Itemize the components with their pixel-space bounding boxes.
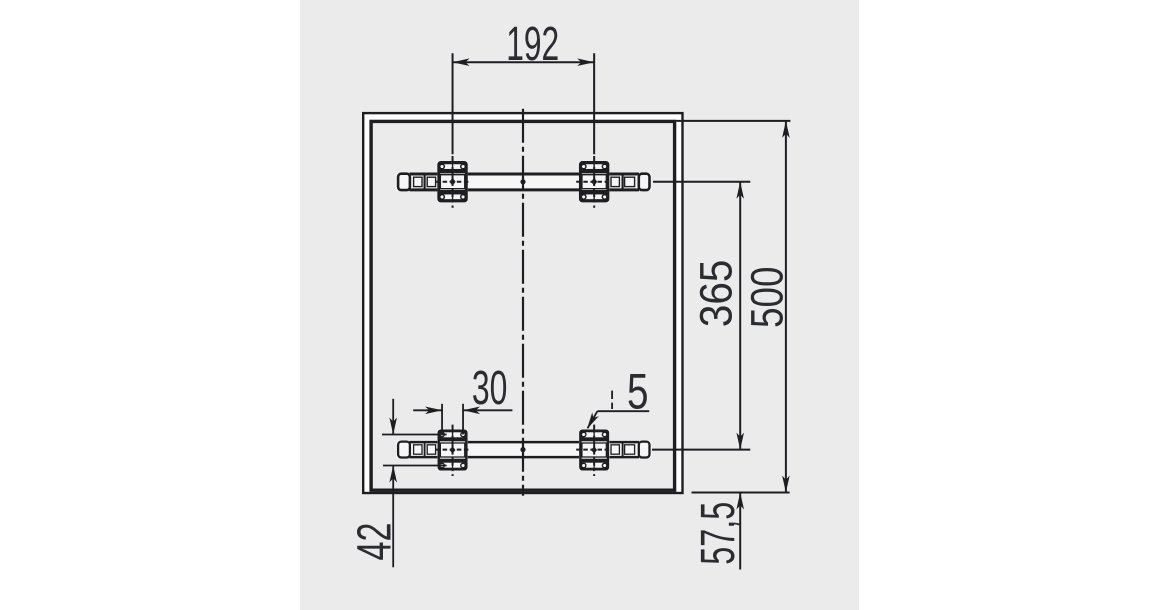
dimension 30 — [413, 404, 512, 435]
rail R2 halo — [396, 441, 652, 458]
svg-text:57,5: 57,5 — [691, 502, 745, 565]
rail R1 end cap left — [398, 174, 410, 190]
plate inner outline — [371, 121, 674, 490]
block B3 vertical centerline — [452, 425, 454, 476]
block B4 vertical centerline — [593, 425, 595, 476]
rail R2 body — [410, 441, 640, 458]
label 5 leader — [588, 391, 650, 429]
carriage block B3 — [437, 429, 467, 470]
rail R1 halo — [396, 173, 652, 191]
rail R2 end cap left — [398, 442, 410, 458]
svg-text:192: 192 — [506, 18, 559, 71]
svg-text:42: 42 — [349, 523, 402, 561]
svg-text:5: 5 — [627, 364, 649, 420]
dimension 365 — [739, 182, 741, 450]
svg-text:365: 365 — [691, 260, 742, 328]
rail R1 hole squares — [414, 177, 635, 186]
gray drawing panel — [300, 0, 859, 610]
rail R1 center dot — [520, 179, 525, 184]
rail R2 hole squares — [414, 445, 635, 454]
dimension 57,5 — [739, 493, 741, 570]
rail R2 center dot — [520, 447, 525, 452]
dimension 192 — [453, 53, 595, 154]
rail R1 end cap right — [639, 174, 650, 190]
rail R2 end cap right — [639, 442, 650, 458]
rail R1 body — [410, 173, 640, 191]
plate outer outline — [363, 113, 682, 493]
carriage block B1 — [437, 161, 467, 202]
dimension 500 — [785, 121, 787, 493]
rail R1 centerline dashes — [436, 181, 612, 183]
svg-text:500: 500 — [742, 267, 793, 329]
carriage block B2 — [579, 161, 609, 202]
svg-text:30: 30 — [472, 362, 508, 415]
rail R2 centerline dashes — [436, 449, 612, 451]
block B1 vertical centerline — [452, 156, 454, 208]
block B2 vertical centerline — [593, 156, 595, 208]
right side extension lines — [652, 121, 790, 493]
vertical centerline — [522, 109, 524, 496]
carriage block B4 — [579, 429, 609, 470]
dimension 42 — [382, 399, 447, 568]
